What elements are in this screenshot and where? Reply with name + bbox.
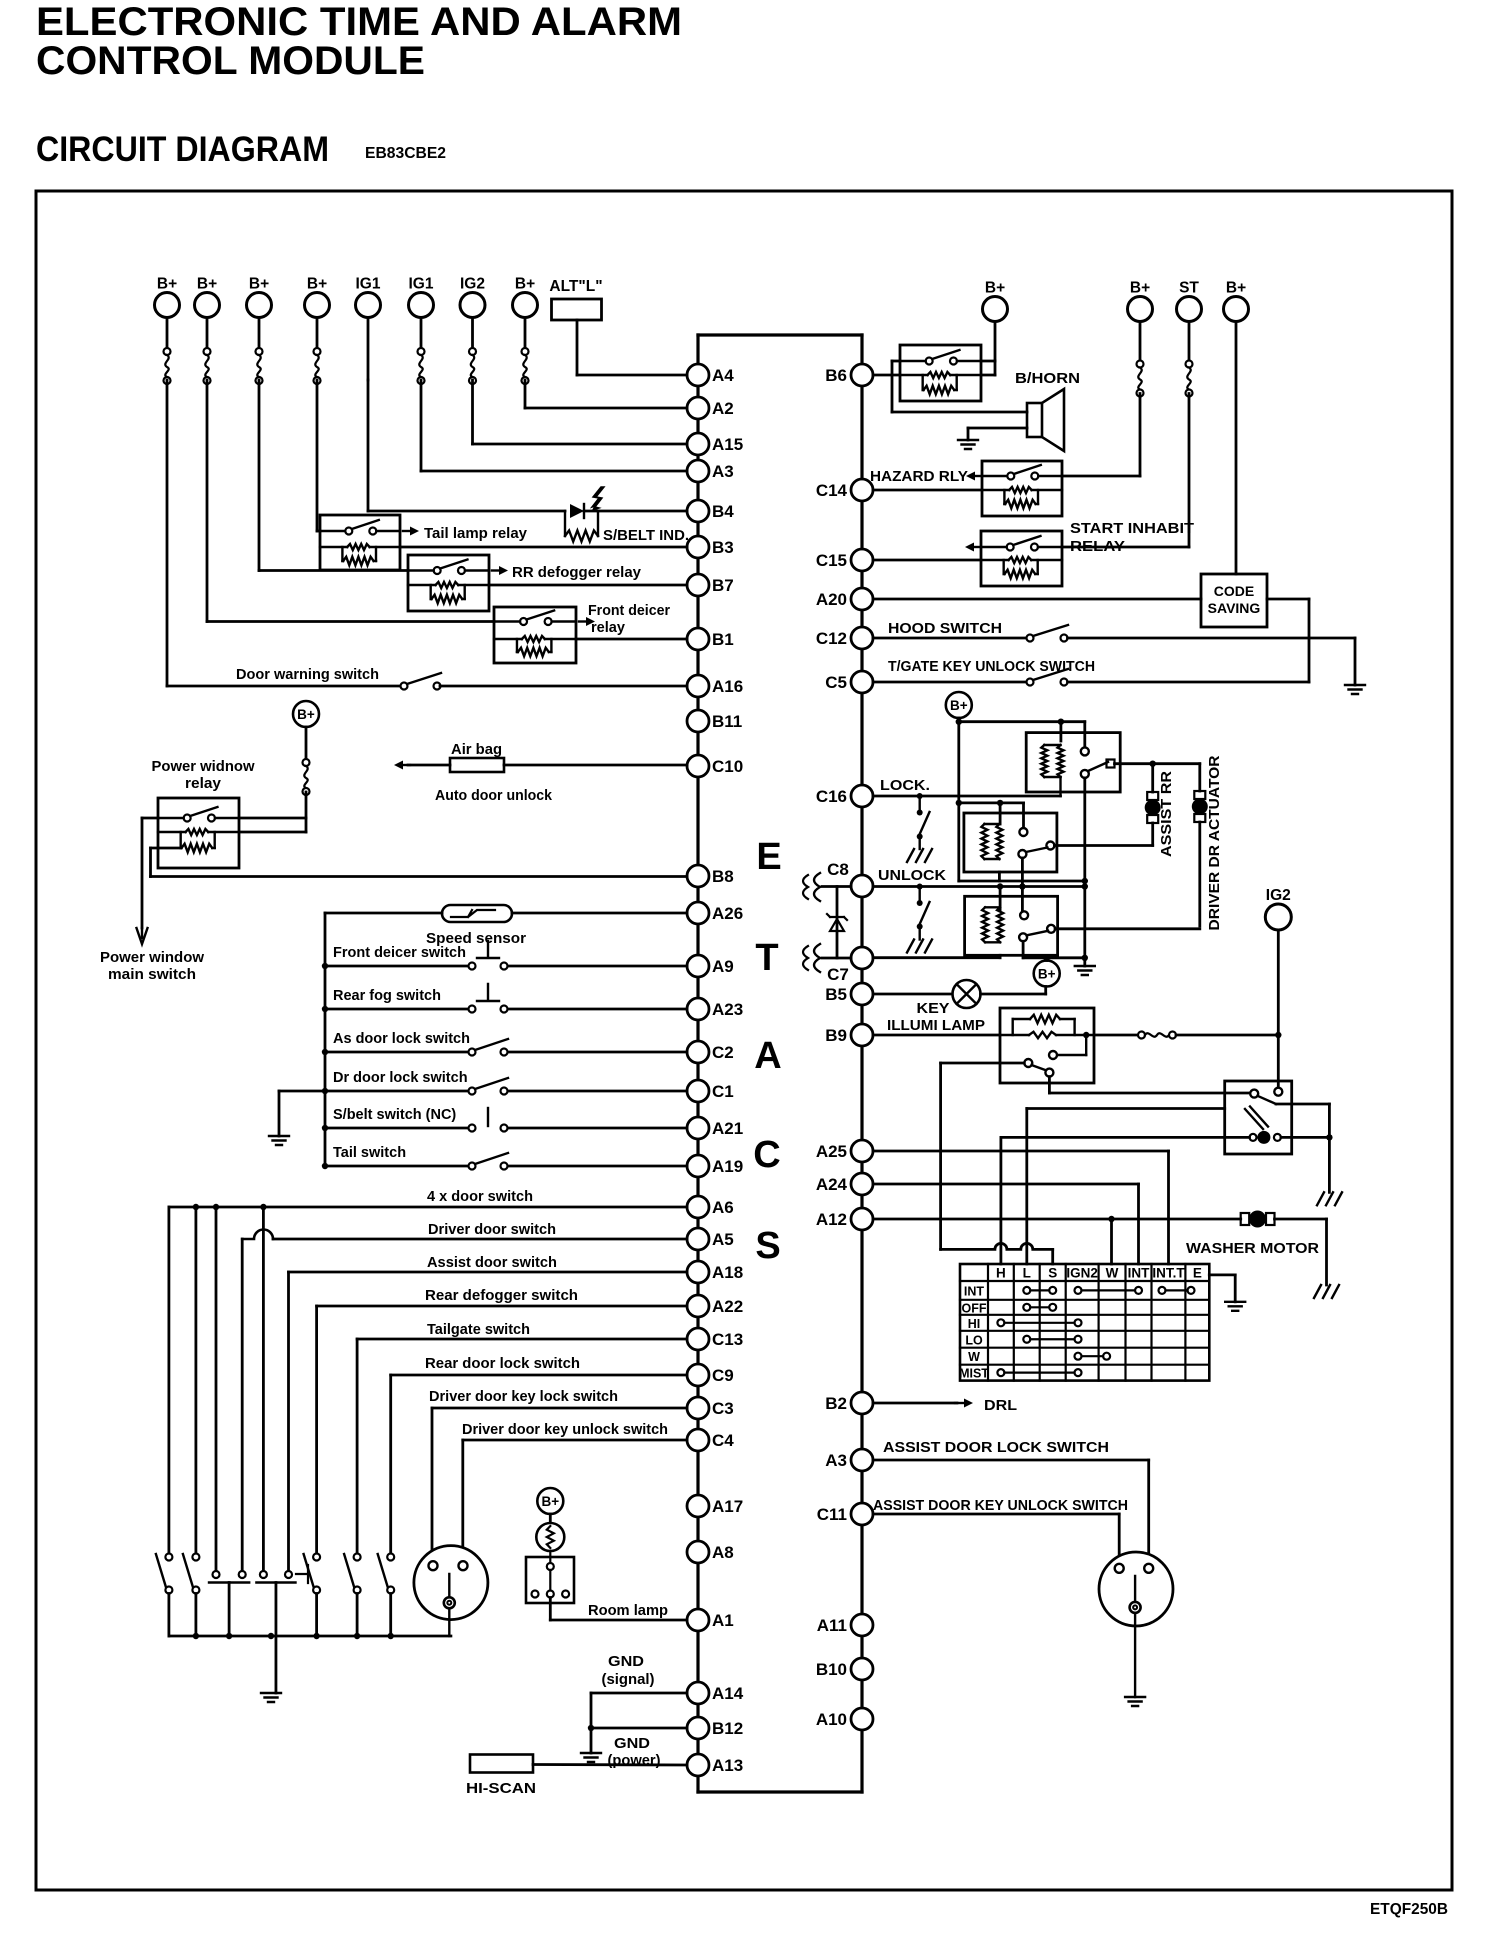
svg-text:A8: A8 bbox=[712, 1543, 734, 1562]
svg-text:relay: relay bbox=[185, 776, 221, 792]
wire to Tail switch bbox=[325, 1165, 472, 1168]
B+ source door lock bbox=[946, 692, 972, 718]
wire break marks at C8 bbox=[803, 873, 820, 901]
relay B/HORN bbox=[900, 345, 981, 401]
connector pin C12 (right) bbox=[816, 627, 873, 649]
wiper switch table bbox=[959, 1264, 1209, 1381]
svg-text:C14: C14 bbox=[816, 481, 848, 500]
ground drop wire bbox=[278, 1091, 281, 1136]
svg-text:S: S bbox=[1048, 1266, 1057, 1281]
wire washer motor right bbox=[1275, 1218, 1327, 1221]
key illumi lamp bbox=[953, 980, 981, 1008]
svg-text:Assist door switch: Assist door switch bbox=[427, 1255, 557, 1271]
junction with unlock wire bbox=[1082, 883, 1088, 889]
connector pin B8 bbox=[687, 865, 734, 887]
junction on switch column at As door lock switch bbox=[322, 1049, 328, 1055]
wire B+ hazard down to hazard relay bbox=[1139, 394, 1142, 477]
E ground wire down bbox=[1234, 1275, 1237, 1302]
svg-text:EB83CBE2: EB83CBE2 bbox=[365, 145, 446, 162]
drop wire x=216 to bottom switch bank bbox=[215, 1207, 218, 1571]
fuse below ST bbox=[1186, 361, 1193, 397]
hood switch contacts bbox=[1027, 625, 1069, 642]
junction on bank bus bbox=[226, 1633, 232, 1639]
svg-text:B+: B+ bbox=[1038, 967, 1056, 982]
horn feed wire to speaker bbox=[892, 411, 1027, 414]
junction on switch column at S/belt switch (NC) bbox=[322, 1125, 328, 1131]
wire from B+ hazard bbox=[1139, 322, 1142, 361]
junction on switch column at Tail switch bbox=[322, 1163, 328, 1169]
power terminal ST bbox=[1177, 280, 1202, 322]
washer motor chassis ground bbox=[1314, 1285, 1339, 1298]
wire S/BELT to pin B4 bbox=[598, 510, 687, 513]
svg-text:B+: B+ bbox=[541, 1494, 559, 1509]
table contacts W row bbox=[1075, 1353, 1082, 1360]
relay common down bbox=[1048, 1077, 1051, 1093]
power terminal B+ bbox=[155, 276, 180, 318]
svg-text:B+: B+ bbox=[157, 276, 177, 293]
wire 4x door switch to pin A6 bbox=[169, 1206, 687, 1209]
connector pin C9 bbox=[687, 1364, 734, 1386]
svg-text:Power window: Power window bbox=[100, 950, 205, 966]
door switch 4 contacts bbox=[256, 1571, 295, 1583]
wire pin A14 to signal ground bbox=[591, 1692, 687, 1695]
svg-text:A26: A26 bbox=[712, 904, 743, 923]
svg-text:W: W bbox=[968, 1350, 980, 1364]
wire down to INT column bbox=[1137, 1184, 1140, 1264]
svg-text:LO: LO bbox=[965, 1333, 983, 1347]
connector pin A3 bbox=[687, 460, 734, 482]
door lock cluster ground bbox=[1075, 966, 1095, 975]
wire start inhibit relay switch to ST wire bbox=[1062, 546, 1189, 549]
wire down to INT.T column bbox=[1167, 1151, 1170, 1264]
wire from B+ terminal bbox=[166, 318, 169, 349]
middle relay coil to lower B+ wire bbox=[998, 872, 1001, 881]
svg-text:B+: B+ bbox=[1226, 280, 1246, 297]
junction unlock to lower relay coil bbox=[997, 883, 1003, 889]
t/gate key unlock switch contacts bbox=[1027, 669, 1069, 686]
svg-text:HAZARD RLY: HAZARD RLY bbox=[870, 469, 968, 485]
svg-text:IG1: IG1 bbox=[356, 276, 381, 293]
connector pin A25 (right) bbox=[816, 1140, 873, 1162]
connector pin C5 (right) bbox=[825, 671, 873, 693]
drop wire x=432 to bottom switch bank bbox=[431, 1408, 434, 1561]
wire to Dr door lock switch bbox=[325, 1090, 472, 1093]
door warning switch bbox=[401, 673, 442, 690]
power terminal B+ bbox=[247, 276, 272, 318]
junction lamp wire bbox=[1326, 1134, 1332, 1140]
wire top relay switch to driver actuator bbox=[1115, 762, 1200, 765]
svg-text:IG1: IG1 bbox=[409, 276, 434, 293]
wire IG1 no.1 down to S/BELT line bbox=[367, 380, 370, 511]
svg-text:A4: A4 bbox=[712, 366, 734, 385]
B+ feed wire to top relay bbox=[959, 720, 1085, 723]
wire down to table H column bbox=[1000, 1137, 1003, 1264]
svg-text:E: E bbox=[756, 836, 781, 878]
wire relay switch to fuse wire bbox=[239, 817, 306, 820]
assist rr actuator lower wire bbox=[1151, 823, 1154, 845]
wire A5 with hop over door switch wire bbox=[242, 1230, 273, 1240]
svg-text:DRL: DRL bbox=[984, 1397, 1017, 1414]
code saving wire down bbox=[1308, 599, 1311, 682]
wire to S/belt switch (NC) bbox=[325, 1127, 472, 1130]
svg-text:ASSIST DOOR KEY UNLOCK SWITCH: ASSIST DOOR KEY UNLOCK SWITCH bbox=[873, 1498, 1128, 1514]
stub to top relay switch contact bbox=[1083, 722, 1086, 748]
svg-text:A20: A20 bbox=[816, 590, 847, 609]
wire IG1 no.2 to pin A3 bbox=[421, 470, 687, 473]
connector pin A2 bbox=[687, 397, 734, 419]
svg-text:A: A bbox=[754, 1035, 781, 1077]
power terminal IG2 bbox=[460, 276, 485, 318]
svg-text:C3: C3 bbox=[712, 1399, 734, 1418]
svg-text:Room lamp: Room lamp bbox=[588, 1603, 668, 1619]
door switch 3 contacts bbox=[209, 1571, 249, 1583]
wire B+ no.1 down to door warning switch bbox=[166, 380, 169, 686]
wire IG1 to S/BELT indicator bbox=[368, 510, 565, 513]
junction on bank bus bbox=[193, 1633, 199, 1639]
svg-text:Driver door key lock switch: Driver door key lock switch bbox=[429, 1389, 618, 1405]
table contacts LO row bbox=[1023, 1336, 1030, 1343]
junction on switch column at Front deicer switch bbox=[322, 963, 328, 969]
tailgate switch contacts bbox=[344, 1554, 361, 1594]
wire rear door lock switch to pin C9 bbox=[391, 1374, 687, 1377]
wire IG2 down bbox=[471, 380, 474, 444]
stem of door switch 3 contacts bbox=[228, 1583, 231, 1637]
svg-text:B7: B7 bbox=[712, 576, 734, 595]
junction 4x door switch at x=263.4 bbox=[260, 1204, 266, 1210]
svg-text:A15: A15 bbox=[712, 435, 743, 454]
wire fuse down to relay bbox=[305, 792, 308, 832]
wire horn relay switch out left bbox=[892, 360, 900, 363]
wire from ST bbox=[1188, 322, 1191, 361]
junction B+ on lower feed wire bbox=[1044, 955, 1050, 961]
svg-text:UNLOCK: UNLOCK bbox=[878, 868, 947, 884]
svg-text:KEY: KEY bbox=[917, 1001, 950, 1017]
table contacts HI row bbox=[997, 1319, 1004, 1326]
wire up to B+ circle bbox=[1044, 987, 1047, 995]
wire pin B5 to key illumi lamp bbox=[873, 993, 953, 996]
ground for door switch bank bbox=[261, 1693, 281, 1702]
B+ stub up bbox=[1045, 958, 1048, 961]
wire down to table S column bbox=[1051, 1249, 1054, 1264]
wire ST down to start inhibit relay bbox=[1188, 394, 1191, 548]
top link wire A4 to B6 bbox=[698, 333, 862, 336]
svg-text:Air bag: Air bag bbox=[451, 742, 502, 758]
wire S/belt switch (NC) to pin bbox=[508, 1127, 687, 1130]
connector pin B9 (right) bbox=[825, 1024, 873, 1046]
power terminal B+ bbox=[513, 276, 538, 318]
hood switch ground drop bbox=[1354, 638, 1357, 685]
arrow to power window main switch bbox=[137, 928, 148, 944]
svg-text:A2: A2 bbox=[712, 399, 734, 418]
svg-text:A11: A11 bbox=[817, 1616, 847, 1635]
ground for door lock switches bbox=[269, 1136, 289, 1145]
washer ground wire down bbox=[1325, 1219, 1328, 1285]
connector pin A17 bbox=[687, 1495, 743, 1517]
connector pin A16 bbox=[687, 675, 743, 697]
wire table E column out bbox=[1209, 1274, 1235, 1277]
junction on IG2 wire bbox=[1275, 1032, 1281, 1038]
svg-text:(signal): (signal) bbox=[602, 1672, 655, 1688]
fuse power window bbox=[303, 759, 310, 795]
svg-text:E: E bbox=[1193, 1266, 1202, 1281]
B+ source lower bbox=[1034, 961, 1060, 987]
wire rear door lock switch contacts to bank bus bbox=[389, 1594, 392, 1637]
svg-text:Rear door lock switch: Rear door lock switch bbox=[425, 1356, 580, 1372]
B+ wire lower run to central wire bbox=[959, 880, 1085, 883]
key lamp wire left to table H column bbox=[1001, 1136, 1250, 1139]
svg-text:Front deicer switch: Front deicer switch bbox=[333, 945, 466, 961]
middle relay common to assist actuator bbox=[1054, 844, 1152, 847]
wire relay to fuse bbox=[1094, 1034, 1138, 1037]
fuse below B+ terminal bbox=[256, 348, 263, 384]
relay power window bbox=[158, 798, 239, 868]
power terminal B+ bbox=[195, 276, 220, 318]
svg-text:L: L bbox=[1023, 1266, 1031, 1281]
wire down to assist rr actuator bbox=[1151, 764, 1154, 792]
wire pin A20 to code saving box bbox=[873, 598, 1201, 601]
svg-text:IG2: IG2 bbox=[1266, 887, 1291, 904]
svg-text:DRIVER DR ACTUATOR: DRIVER DR ACTUATOR bbox=[1206, 755, 1223, 930]
stub break to pin C8 bbox=[822, 885, 851, 888]
svg-text:A25: A25 bbox=[816, 1142, 847, 1161]
junction to top relay coil bbox=[1058, 719, 1064, 725]
drop wire x=288.5 to bottom switch bank bbox=[287, 1272, 290, 1571]
svg-text:ASSIST DOOR LOCK SWITCH: ASSIST DOOR LOCK SWITCH bbox=[883, 1440, 1109, 1456]
wire code saving out right bbox=[1267, 598, 1309, 601]
svg-text:ALT"L": ALT"L" bbox=[549, 278, 602, 295]
wire B+ no.2 down to front deicer relay bbox=[206, 380, 209, 622]
wire horn relay coil to B+ wire bbox=[981, 374, 995, 377]
svg-text:A18: A18 bbox=[712, 1263, 743, 1282]
horn ground drop bbox=[967, 428, 970, 440]
svg-text:S: S bbox=[755, 1225, 780, 1267]
wire down to key switch right pin bbox=[1147, 1460, 1150, 1564]
B+ source for room lamp bbox=[537, 1488, 563, 1514]
wire into tail lamp relay bbox=[317, 530, 320, 533]
svg-text:C8: C8 bbox=[827, 860, 849, 879]
connector pin B12 bbox=[687, 1717, 743, 1739]
ALT"L" terminal box bbox=[549, 278, 602, 320]
diode branch wire bbox=[836, 887, 839, 959]
svg-text:B8: B8 bbox=[712, 867, 734, 886]
junction on bank bus bbox=[354, 1633, 360, 1639]
lower feed wire to central wire bbox=[1023, 956, 1085, 959]
svg-text:A5: A5 bbox=[712, 1230, 734, 1249]
stub break to pin C7 bbox=[822, 957, 851, 960]
wire door warning switch to pin A16 bbox=[440, 685, 687, 688]
svg-text:A13: A13 bbox=[712, 1756, 743, 1775]
S/BELT parallel resistor bbox=[565, 511, 598, 542]
svg-text:INT: INT bbox=[964, 1284, 985, 1298]
svg-text:A3: A3 bbox=[825, 1451, 847, 1470]
relay door lock (upper) bbox=[1026, 733, 1120, 796]
wire to door warning switch bbox=[167, 685, 404, 688]
wire coil out left bbox=[151, 847, 181, 850]
connector pin C13 bbox=[687, 1328, 743, 1350]
svg-text:main switch: main switch bbox=[108, 967, 196, 983]
key reminder relay (B9) bbox=[1000, 1008, 1094, 1083]
svg-text:Rear fog switch: Rear fog switch bbox=[333, 988, 441, 1004]
wire pin C5 to t/gate key unlock switch bbox=[873, 681, 1030, 684]
wire relay common to key switch bbox=[1049, 1092, 1250, 1095]
fuse below IG1 terminal bbox=[418, 348, 425, 384]
wire break marks at C7 bbox=[803, 944, 820, 972]
air bag resistor box bbox=[450, 758, 504, 772]
svg-text:B4: B4 bbox=[712, 502, 734, 521]
table contacts MIST row bbox=[997, 1369, 1004, 1376]
horn speaker bbox=[1027, 389, 1064, 451]
svg-text:Tail lamp relay: Tail lamp relay bbox=[424, 526, 527, 542]
svg-text:A3: A3 bbox=[712, 462, 734, 481]
horn ground wire bbox=[968, 427, 1027, 430]
table contacts OFF row bbox=[1023, 1304, 1030, 1311]
svg-text:A19: A19 bbox=[712, 1157, 743, 1176]
wire driver door key lock switch to pin C3 bbox=[432, 1407, 687, 1410]
svg-text:RELAY: RELAY bbox=[1070, 539, 1125, 555]
connector pin A8 bbox=[687, 1541, 734, 1563]
svg-text:W: W bbox=[1106, 1266, 1119, 1281]
junction with lower feed wire bbox=[1082, 955, 1088, 961]
wire pin B6 to horn relay bbox=[873, 374, 900, 377]
svg-text:S/BELT IND.: S/BELT IND. bbox=[603, 527, 689, 544]
connector pin A11 (right) bbox=[817, 1614, 873, 1636]
junction to middle relay coil bbox=[997, 800, 1003, 806]
power terminal IG1 bbox=[356, 276, 381, 318]
svg-text:C: C bbox=[753, 1134, 780, 1176]
wire pin A3 to assist door key switch bbox=[873, 1459, 1149, 1462]
connector pin A9 bbox=[687, 955, 734, 977]
svg-text:C4: C4 bbox=[712, 1431, 734, 1450]
svg-text:Dr door lock switch: Dr door lock switch bbox=[333, 1070, 468, 1086]
wire RR defogger coil to pin B7 bbox=[489, 584, 687, 587]
svg-text:C11: C11 bbox=[817, 1505, 847, 1524]
lower relay coil to C7 wire bbox=[999, 955, 1002, 957]
svg-text:C7: C7 bbox=[827, 965, 849, 984]
door switch 1 bbox=[156, 1554, 173, 1594]
connector pin C4 bbox=[687, 1429, 734, 1451]
wire coil down bbox=[149, 848, 152, 877]
svg-text:B6: B6 bbox=[825, 366, 847, 385]
wire hazard relay switch to B+ wire bbox=[1062, 475, 1140, 478]
relay RR defogger bbox=[408, 555, 489, 611]
wire down to driver actuator bbox=[1198, 764, 1201, 791]
relay tail lamp bbox=[320, 515, 400, 570]
connector pin A22 bbox=[687, 1295, 743, 1317]
wire from B+ terminal bbox=[258, 318, 261, 349]
key switch wire out right bbox=[1276, 1103, 1329, 1106]
connector pin A14 bbox=[687, 1682, 744, 1704]
connector pin C1 bbox=[687, 1080, 734, 1102]
svg-text:START INHABIT: START INHABIT bbox=[1070, 521, 1194, 537]
wire B+ no.3 to RR defogger relay bbox=[259, 569, 408, 572]
left switch column bus bbox=[324, 913, 327, 1166]
wire tail lamp relay coil to pin B3 bbox=[400, 546, 687, 549]
wire pin C15 to start inhibit relay bbox=[873, 559, 981, 562]
svg-text:ELECTRONIC TIME AND ALARM: ELECTRONIC TIME AND ALARM bbox=[36, 0, 682, 44]
drop wire x=390.7 to bottom switch bank bbox=[389, 1375, 392, 1553]
connector pin A26 bbox=[687, 902, 743, 924]
svg-text:B/HORN: B/HORN bbox=[1015, 370, 1080, 387]
svg-text:ETQF250B: ETQF250B bbox=[1370, 1901, 1448, 1918]
junction to table W column bbox=[1108, 1216, 1114, 1222]
svg-text:GND: GND bbox=[608, 1653, 644, 1670]
connector pin B3 bbox=[687, 536, 734, 558]
wire from B+ terminal bbox=[524, 318, 527, 349]
svg-text:HI-SCAN: HI-SCAN bbox=[466, 1780, 536, 1797]
junction on bank bus bbox=[313, 1633, 319, 1639]
svg-text:B+: B+ bbox=[985, 280, 1005, 297]
svg-text:A12: A12 bbox=[816, 1210, 847, 1229]
connector pin C7 (right) bbox=[827, 947, 873, 984]
lower relay contact down bbox=[1022, 941, 1025, 958]
svg-text:MIST: MIST bbox=[959, 1367, 989, 1381]
middle relay contact down to lower relay bbox=[1021, 858, 1024, 914]
relay hazard bbox=[982, 461, 1062, 516]
connector pin A24 (right) bbox=[816, 1173, 873, 1195]
wire door switch 2 to bank bus bbox=[194, 1594, 197, 1637]
wire LED to junction bbox=[584, 510, 598, 513]
svg-text:C10: C10 bbox=[712, 757, 743, 776]
fuse below B+ terminal bbox=[522, 348, 529, 384]
wire B+ no.8 to pin A2 bbox=[525, 407, 687, 410]
junction on unlock wire bbox=[1019, 883, 1025, 889]
svg-text:Auto door unlock: Auto door unlock bbox=[435, 788, 553, 804]
wire horn relay switch to B+ wire bbox=[981, 360, 995, 363]
wire room lamp down bbox=[549, 1598, 552, 1621]
wire pin A24 to table INT column bbox=[873, 1183, 1139, 1186]
wire room lamp to pin A1 bbox=[550, 1619, 687, 1622]
svg-text:A14: A14 bbox=[712, 1684, 744, 1703]
connector pin B11 bbox=[687, 710, 742, 732]
drop wire x=316.6 to bottom switch bank bbox=[315, 1306, 318, 1553]
bottom link wire bbox=[698, 1790, 862, 1793]
wire Rear fog switch to pin bbox=[508, 1008, 687, 1011]
svg-text:T/GATE KEY UNLOCK SWITCH: T/GATE KEY UNLOCK SWITCH bbox=[888, 659, 1095, 675]
wire IG1 no.2 down bbox=[420, 380, 423, 471]
connector pin C11 (right) bbox=[817, 1503, 873, 1525]
wire door switch 1 to bank bus bbox=[167, 1594, 170, 1637]
left connector bus wire bbox=[696, 335, 699, 1792]
assist door key switch bbox=[1099, 1552, 1173, 1697]
wire front deicer coil to pin B1 bbox=[576, 638, 687, 641]
key switch ground wire down bbox=[1328, 1104, 1331, 1192]
rear door lock switch contacts bbox=[378, 1554, 395, 1594]
door switch 2 bbox=[183, 1554, 200, 1594]
svg-text:Tailgate switch: Tailgate switch bbox=[427, 1322, 530, 1338]
wire Dr door lock switch to pin bbox=[508, 1090, 687, 1093]
wire B+ no.3 down to RR defogger relay bbox=[258, 380, 261, 571]
S/BELT indicator LED diode bbox=[570, 504, 584, 518]
wire relay coil to fuse wire bbox=[239, 831, 306, 834]
svg-text:B12: B12 bbox=[712, 1719, 743, 1738]
svg-text:A1: A1 bbox=[712, 1611, 734, 1630]
connector pin A15 bbox=[687, 433, 743, 455]
wire pin A25 to table INT.T column bbox=[873, 1150, 1169, 1153]
connector pin B1 bbox=[687, 628, 734, 650]
svg-text:B+: B+ bbox=[249, 276, 269, 293]
wire C1 row to ground bbox=[279, 1090, 325, 1093]
svg-text:IG2: IG2 bbox=[460, 276, 485, 293]
connector pin A4 bbox=[687, 364, 734, 386]
power terminal IG1 bbox=[409, 276, 434, 318]
connector pin A23 bbox=[687, 998, 743, 1020]
svg-text:HI: HI bbox=[968, 1317, 981, 1331]
wire Tail switch to pin bbox=[508, 1165, 687, 1168]
connector pin B10 (right) bbox=[816, 1658, 873, 1680]
svg-text:B+: B+ bbox=[197, 276, 217, 293]
svg-text:RR defogger relay: RR defogger relay bbox=[512, 565, 641, 581]
room lamp bulb bbox=[536, 1523, 564, 1551]
